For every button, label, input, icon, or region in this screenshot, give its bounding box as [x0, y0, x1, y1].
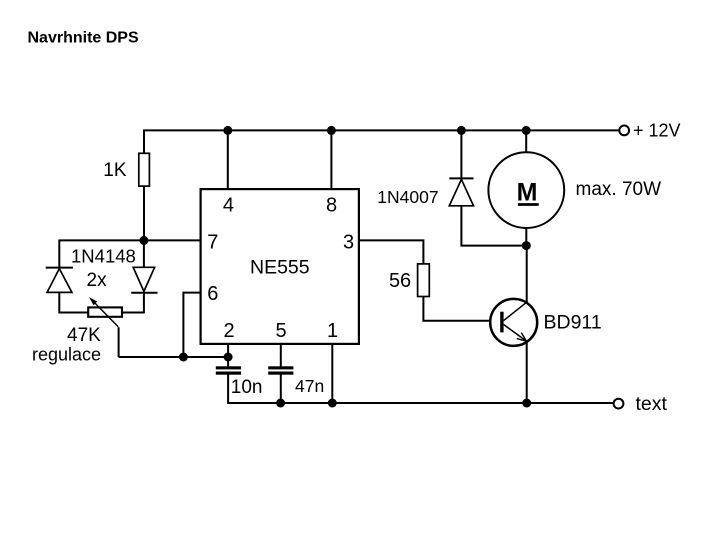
wire pin 4 to rail — [227, 130, 229, 190]
wire node A to pin 7 — [144, 239, 201, 241]
transistor Q1 BD911 — [490, 299, 537, 346]
junction dot pin1/ground rail — [328, 399, 337, 408]
junction dot pin4/rail — [223, 126, 232, 135]
svg-text:BD911: BD911 — [544, 311, 602, 333]
node B junction dot (pin6 riser on wiper wire) — [179, 353, 188, 362]
wire D3 top to rail — [460, 130, 462, 179]
svg-text:1N4007: 1N4007 — [377, 187, 438, 207]
Q1 base bar — [500, 312, 503, 333]
capacitor C1 10n plates — [216, 366, 241, 374]
svg-text:1: 1 — [327, 320, 338, 342]
potentiometer wiper arrow of P1 — [89, 297, 118, 327]
wire D2 bottom bar down — [143, 293, 145, 313]
wire D3 bottom to motor bottom node — [461, 206, 526, 246]
node A junction dot (R1 / pin7 / diode network) — [139, 236, 148, 245]
motor M underline — [518, 203, 539, 206]
wire motor top to rail — [525, 130, 527, 153]
wire D1 bottom down — [58, 292, 60, 313]
wire Q1 collector up to motor node — [526, 246, 528, 302]
op-amp U1 NE555 box — [201, 189, 359, 344]
svg-text:56: 56 — [389, 270, 411, 292]
wire pin 5 stub to C2 top — [280, 344, 282, 367]
wire R2 bottom to Q1 base — [423, 297, 501, 321]
svg-text:regulace: regulace — [32, 345, 101, 365]
wire bottom ground rail — [228, 402, 613, 404]
wire node A left to diode branch — [59, 239, 144, 241]
svg-text:7: 7 — [207, 232, 218, 254]
wire pin 1 down to ground rail — [331, 344, 333, 404]
svg-text:3: 3 — [343, 232, 354, 254]
diode D2 1N4148 (right, cathode down) — [131, 267, 157, 293]
svg-text:NE555: NE555 — [250, 256, 310, 278]
svg-text:47n: 47n — [295, 376, 324, 396]
wire node C to C1 top — [227, 357, 229, 367]
svg-text:2: 2 — [223, 320, 234, 342]
wire down to D1 top — [58, 240, 60, 268]
capacitor C2 47n plates — [268, 366, 293, 374]
wire wiper run to pin2 node — [119, 356, 229, 358]
wire pin6 riser — [183, 293, 200, 357]
svg-text:5: 5 — [275, 320, 286, 342]
svg-text:6: 6 — [207, 283, 218, 305]
Q1 collector diagonal — [504, 301, 528, 320]
wire pin 3 to R2 — [359, 240, 424, 264]
junction dot pin8/rail — [327, 126, 336, 135]
wire R1 bottom to node A — [143, 186, 145, 240]
wire C2 bottom to ground rail — [280, 374, 282, 404]
junction dot motor bottom node — [522, 241, 531, 250]
wire to P1 left — [59, 312, 88, 314]
svg-text:Navrhnite DPS: Navrhnite DPS — [28, 30, 139, 47]
wire top +12V rail — [143, 129, 619, 131]
terminal open circle +12V — [619, 125, 629, 135]
Q1 emitter diagonal with arrow — [504, 325, 527, 342]
svg-text:4: 4 — [223, 195, 234, 217]
junction dot D3/rail — [457, 126, 466, 135]
motor M1 circle — [488, 152, 564, 228]
svg-text:M: M — [517, 178, 538, 206]
diode D3 1N4007 (cathode up) — [449, 178, 473, 205]
svg-text:1K: 1K — [103, 160, 127, 181]
terminal open circle bottom right — [614, 399, 624, 409]
resistor R2 56 body — [418, 264, 430, 297]
wire motor bottom stub — [525, 228, 527, 246]
svg-text:8: 8 — [326, 195, 337, 217]
svg-text:47K: 47K — [67, 325, 101, 346]
svg-text:1N4148: 1N4148 — [71, 245, 136, 266]
diode D1 1N4148 (left, cathode up) — [46, 268, 73, 293]
svg-text:max. 70W: max. 70W — [576, 179, 662, 200]
wire Q1 emitter down to ground rail — [526, 343, 528, 404]
wire P1 right to D2 bottom — [123, 312, 144, 314]
wire from rail corner down to R1 top — [143, 130, 145, 154]
node C junction dot (pin2/C1/wiper wire) — [224, 353, 233, 362]
potentiometer P1 47K body — [88, 307, 122, 316]
wire C1 bottom to ground rail — [227, 374, 229, 404]
svg-text:+ 12V: + 12V — [633, 120, 681, 140]
junction dot emitter/ground rail — [522, 399, 531, 408]
svg-text:10n: 10n — [231, 377, 263, 398]
wire node A down to D2 top — [143, 240, 145, 267]
wire pin 8 to rail — [330, 130, 332, 190]
junction dot motor/rail — [522, 126, 531, 135]
junction dot C2/ground rail — [276, 399, 285, 408]
svg-text:2x: 2x — [87, 270, 108, 291]
wire wiper down — [118, 327, 120, 357]
Q1 body circle — [490, 299, 537, 346]
svg-text:text: text — [636, 393, 668, 415]
resistor R1 1K body — [139, 153, 150, 186]
wire pin 2 stub to node C — [227, 344, 229, 358]
